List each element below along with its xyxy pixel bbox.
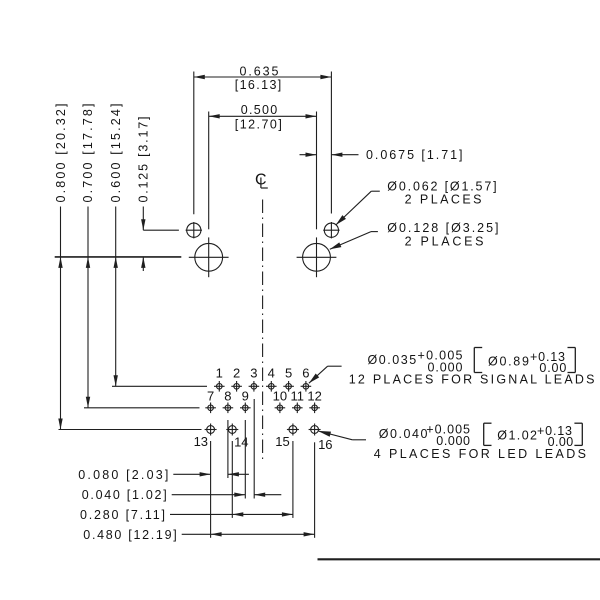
dimension 0.280 [7.11]: [80, 508, 293, 522]
small hole right (0.062): [323, 222, 339, 238]
svg-text:0.635: 0.635: [240, 65, 279, 79]
svg-text:0.480 [12.19]: 0.480 [12.19]: [83, 528, 176, 542]
pin numbers LED row: [194, 434, 333, 452]
pin 12 (signal row 2): [309, 403, 320, 414]
note 0.040 dia 4 places for LED leads with leader from pin 16: [318, 423, 586, 462]
svg-text:2: 2: [233, 365, 240, 380]
svg-text:3: 3: [250, 365, 257, 380]
pin 11 (signal row 2): [292, 403, 303, 414]
centerline symbol CL: [255, 171, 268, 188]
extension line from pin 16: [314, 442, 316, 538]
pin 2 (signal row 1): [231, 381, 242, 392]
dimension 0.700 [17.78] to signal row 2: [81, 104, 199, 408]
dimension 0.480 [12.19]: [83, 528, 314, 542]
svg-text:Ø0.89: Ø0.89: [488, 355, 529, 369]
reference line through big holes: [55, 256, 182, 258]
extension line from pin 8: [227, 420, 229, 478]
svg-text:15: 15: [275, 434, 289, 449]
extension line from pin 14: [231, 441, 233, 518]
svg-text:2 PLACES: 2 PLACES: [405, 235, 484, 249]
extension line from pin 9: [244, 420, 246, 499]
note 0.062 dia 2 places with leader: [336, 180, 497, 225]
svg-text:6: 6: [302, 365, 309, 380]
dimension 0.500 [12.70] big hole spacing: [209, 103, 317, 229]
dimension 0.600 [15.24] to signal row 1: [109, 104, 207, 387]
svg-text:10: 10: [273, 388, 287, 403]
pin 10 (signal row 2): [275, 403, 286, 414]
pin 4 (signal row 1): [266, 381, 277, 392]
small hole left (0.062): [186, 222, 202, 238]
svg-text:16: 16: [318, 437, 332, 452]
svg-text:0.700 [17.78]: 0.700 [17.78]: [81, 104, 95, 203]
svg-text:12: 12: [307, 388, 321, 403]
pin 15 (LED row): [287, 424, 299, 436]
svg-text:Ø0.035: Ø0.035: [368, 353, 417, 367]
extension line from pin 15: [292, 441, 294, 518]
svg-text:0.000: 0.000: [436, 434, 470, 448]
svg-text:[12.70]: [12.70]: [235, 118, 282, 132]
extension line from pin 13: [210, 441, 212, 538]
title block border line: [318, 558, 600, 560]
svg-text:1: 1: [216, 365, 223, 380]
svg-text:Ø1.02: Ø1.02: [497, 428, 537, 442]
pin 9 (signal row 2): [240, 403, 251, 414]
extension line from pin 3: [253, 399, 255, 499]
pin 3 (signal row 1): [249, 381, 260, 392]
centerline (dash-dot): [262, 200, 264, 460]
pin 7 (signal row 2): [205, 403, 216, 414]
pin 1 (signal row 1): [214, 381, 225, 392]
svg-text:9: 9: [242, 388, 249, 403]
svg-text:0.800 [20.32]: 0.800 [20.32]: [54, 104, 68, 203]
svg-text:0.600 [15.24]: 0.600 [15.24]: [109, 104, 123, 203]
svg-text:11: 11: [291, 388, 305, 403]
note 0.128 dia 2 places with leader: [330, 221, 499, 249]
dimension 0.040 [1.02]: [82, 488, 282, 502]
dimension 0.800 [20.32] to LED row: [54, 104, 202, 430]
svg-text:14: 14: [234, 435, 248, 450]
svg-text:0.500: 0.500: [241, 103, 278, 117]
svg-text:12 PLACES FOR SIGNAL LEADS: 12 PLACES FOR SIGNAL LEADS: [349, 373, 595, 387]
big hole left (0.128): [189, 237, 229, 277]
dimension 0.635 [16.13] small hole spacing: [194, 65, 332, 215]
dimension 0.080 [2.03]: [78, 468, 249, 482]
dimension 0.0675 [1.71] hole offset: [300, 148, 463, 162]
pin 16 (LED row): [309, 424, 321, 436]
svg-text:2 PLACES: 2 PLACES: [405, 192, 482, 206]
svg-text:Ø0.040: Ø0.040: [379, 427, 428, 441]
svg-text:Ø0.128 [Ø3.25]: Ø0.128 [Ø3.25]: [387, 221, 498, 235]
svg-text:4: 4: [268, 365, 275, 380]
svg-text:8: 8: [224, 388, 231, 403]
svg-text:[16.13]: [16.13]: [235, 78, 282, 92]
pin 8 (signal row 2): [223, 403, 234, 414]
svg-text:13: 13: [194, 434, 208, 449]
pin numbers row 1: [216, 365, 310, 380]
big hole right (0.128): [297, 237, 337, 277]
pin 14 (LED row): [226, 424, 238, 436]
pin numbers row 2: [207, 388, 322, 403]
pin 5 (signal row 1): [283, 381, 294, 392]
pin 6 (signal row 1): [301, 381, 312, 392]
svg-text:7: 7: [207, 388, 214, 403]
pin 13 (LED row): [205, 424, 217, 436]
dimension 0.125 [3.17] small hole offset: [137, 117, 179, 272]
svg-text:Ø0.062 [Ø1.57]: Ø0.062 [Ø1.57]: [387, 180, 496, 194]
svg-text:5: 5: [285, 365, 292, 380]
note 0.035 dia 12 places for signal leads with leader from pin 6: [309, 348, 595, 387]
